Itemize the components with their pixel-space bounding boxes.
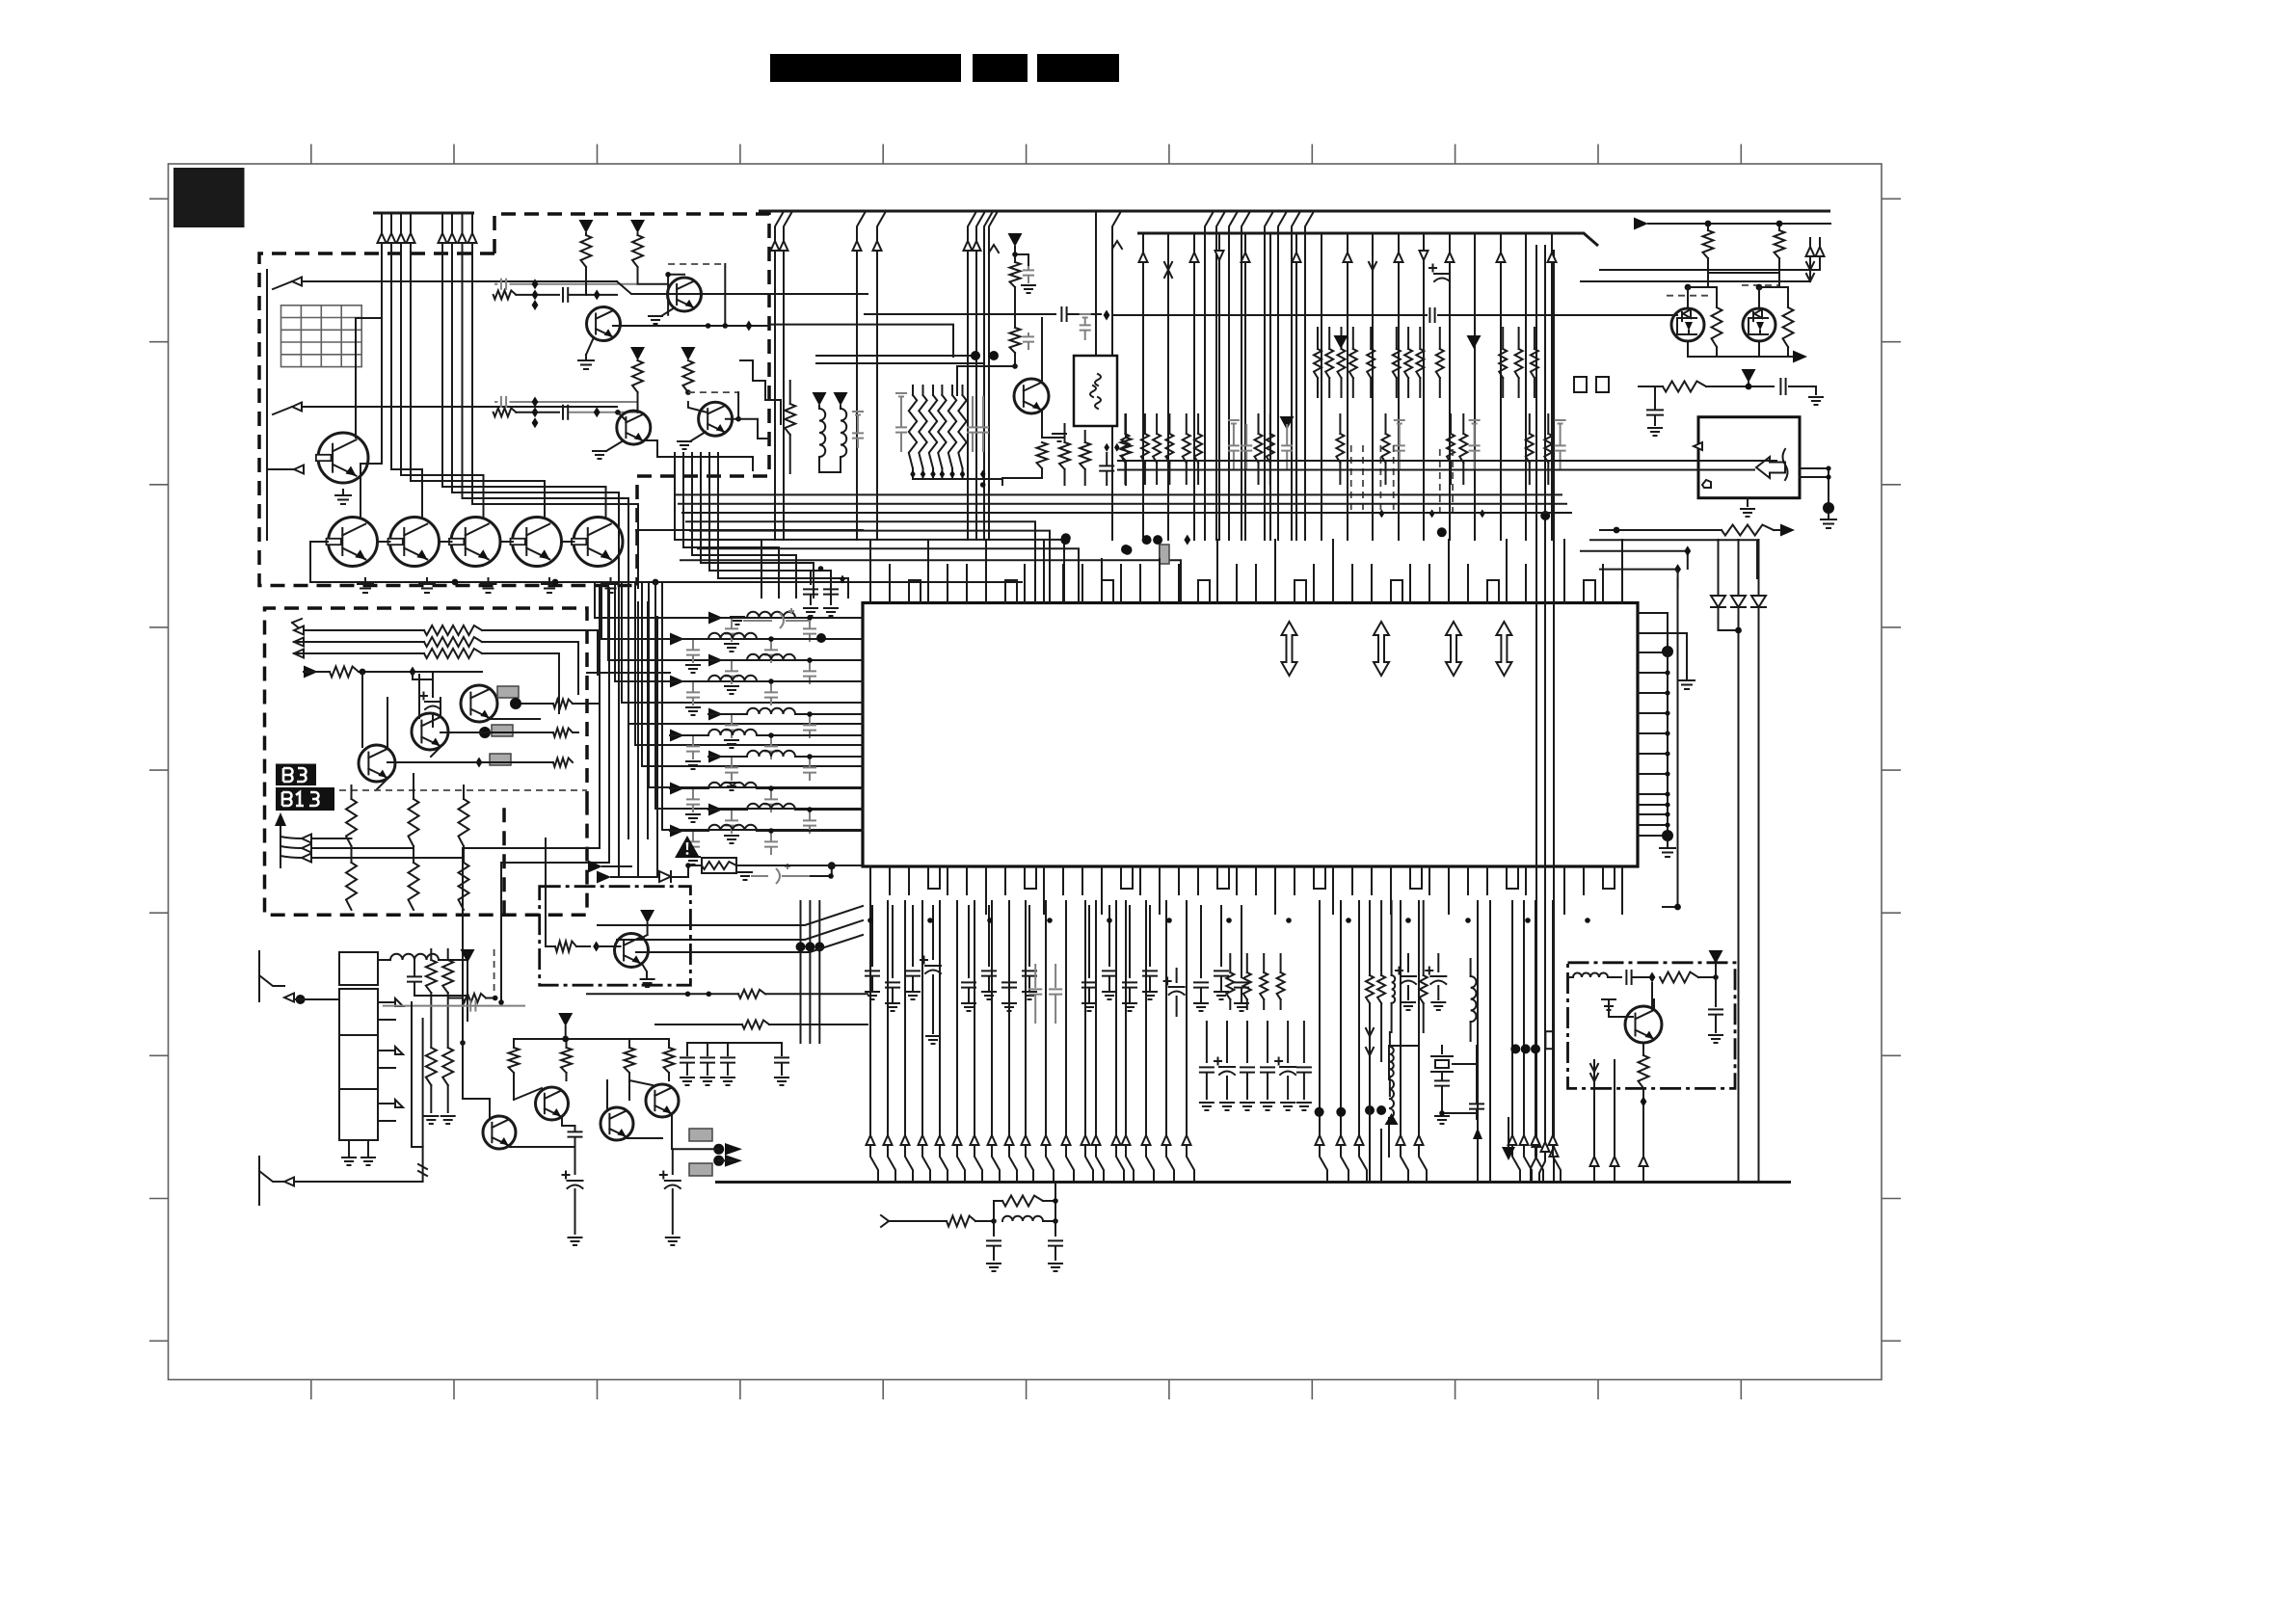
wire run h3 [587, 672, 670, 674]
power triangle bl [461, 949, 475, 963]
capacitor CB11 [707, 1043, 708, 1055]
junction dot f8 [768, 785, 774, 791]
ground Q15 [1042, 437, 1059, 439]
resistor RBL2a [426, 960, 437, 993]
hollow arrow w2 [292, 403, 302, 412]
vertical bus wires from top [382, 214, 472, 243]
wire crystal right [1453, 1046, 1477, 1104]
capacitor CT1 h [1780, 379, 1785, 394]
transistor Q10 [699, 402, 733, 436]
inductor L9 [747, 804, 795, 810]
transistor Q9 [617, 411, 651, 444]
ground CB10 [681, 1078, 694, 1085]
junction dot B8 [615, 410, 621, 415]
junction dot C1 [360, 669, 366, 676]
capacitor CP2 [1023, 336, 1034, 341]
wire filter 5 [723, 713, 863, 715]
junction diamond rail [745, 321, 752, 332]
redacted title block 2 [973, 54, 1028, 82]
grey jumper JC2 [492, 725, 513, 736]
tuner pin triangles [395, 998, 403, 1107]
capacitor CI12 [1200, 906, 1202, 977]
wire H326 ext2 [1438, 314, 1677, 316]
dashed link MOSFET [1667, 285, 1778, 296]
ecap F1 [1434, 274, 1450, 281]
resistor RTR4 [1436, 349, 1444, 378]
ground conn [1821, 514, 1836, 528]
bundle junction dots [1060, 535, 1070, 545]
wire run h1 [794, 865, 863, 866]
grey jumper BM1 [689, 1129, 712, 1141]
filter cap 9 [803, 820, 816, 825]
wire B q8base [638, 275, 685, 315]
transistor Q7 [587, 307, 621, 341]
junction dot Q10c [735, 416, 741, 422]
transistor Q11 [359, 745, 395, 782]
inductor L1 [747, 612, 795, 618]
capacitor CB12 [727, 1043, 729, 1055]
resistor RE1 h [1660, 972, 1698, 983]
dashed shield lines [1351, 445, 1453, 515]
resistor RB1 [581, 235, 592, 267]
ground CM2 [895, 393, 907, 397]
resistor RC6 [553, 729, 573, 737]
capacitor CB13 [781, 1043, 783, 1055]
capacitor CT2 [1647, 410, 1663, 414]
ground CI9 [1103, 992, 1116, 999]
transistor Q33 [646, 1084, 679, 1117]
wire bl [467, 963, 468, 1021]
diamond M1 [1104, 443, 1109, 452]
long wire out1 [742, 293, 868, 295]
IC internal bus arrow 1 [1282, 622, 1297, 676]
resistor RD3 h [742, 1021, 769, 1029]
ground Q40 base [1602, 999, 1615, 1010]
wire CT2 [1654, 386, 1656, 425]
black corner block [174, 168, 245, 227]
arrowheads rv [1533, 1137, 1541, 1147]
ground Q1 [358, 578, 373, 593]
capacitor CB4 [563, 406, 568, 419]
ground BL1 [1402, 1002, 1415, 1010]
wire chain B1 [516, 294, 559, 296]
resistor RC9 [409, 799, 419, 846]
wire Q30 net [463, 1041, 575, 1147]
wire right jog [1600, 570, 1678, 588]
wire Q40 base [1609, 983, 1652, 1017]
ground CI3 [906, 992, 920, 999]
ground IC right pin [1679, 675, 1695, 689]
junction diamond D1 [593, 942, 600, 952]
wire Q14 emitter [642, 964, 647, 977]
power triangle L1 [813, 392, 827, 406]
IC pin ground branch [1638, 633, 1687, 675]
wire chain B2c [569, 412, 638, 413]
bottom bus thick [715, 1181, 1791, 1184]
connector open triangle pin [1694, 442, 1702, 450]
ground CX1 [1435, 1116, 1449, 1124]
wire Q15 collector [1041, 318, 1043, 381]
wire FL1 feed [1095, 211, 1097, 356]
inductor LM1 [819, 409, 825, 457]
out dots BM [713, 1144, 724, 1155]
ground CI4 [962, 1003, 975, 1011]
wire Q11 links [376, 698, 387, 790]
border frame [169, 164, 1882, 1380]
transistor Q31 [536, 1087, 569, 1120]
wire Q3 link [500, 541, 513, 543]
resistor RM6 [1080, 442, 1090, 469]
ground CB13 [775, 1078, 788, 1085]
wire [573, 732, 578, 733]
ground CT11 [824, 608, 838, 616]
ground CI12 [1194, 1003, 1208, 1011]
inductor L2 [708, 633, 757, 639]
wire right h571 [1581, 551, 1688, 569]
wire filter 3 [723, 659, 863, 661]
junction dot Q15 [1013, 364, 1018, 369]
power triangle X [1502, 1147, 1515, 1160]
wire [413, 672, 433, 679]
ground CP1 [1022, 285, 1035, 293]
wire [1789, 386, 1816, 394]
diode DF1 [659, 871, 671, 882]
resistor RB4 [632, 360, 643, 392]
wire B lower gray [494, 401, 638, 403]
resistor RBL1a [442, 960, 453, 993]
transistor Q3 output [451, 518, 500, 567]
electrolytic CBM2 [672, 1149, 674, 1174]
ground CI6 [1002, 1003, 1016, 1011]
dash-dot box D (oscillator) [540, 887, 691, 986]
junction dots base rail [452, 579, 459, 586]
resistor RD1 h [555, 942, 576, 952]
power triangle TR x1335 [1280, 416, 1295, 430]
wire VCO to bus [1642, 1106, 1644, 1182]
gray ecap chain F [751, 864, 811, 884]
junction bigdot conn [1823, 502, 1834, 514]
ground below connector [1747, 498, 1749, 506]
top bus thick [759, 210, 1830, 213]
hollow arrow C3 [294, 650, 304, 658]
fan wires IC bottom-left [598, 906, 863, 952]
diode D1 [1711, 596, 1725, 607]
bus arrowheads bottom [867, 1135, 875, 1145]
bus wires descend [360, 243, 638, 588]
input arrow F2 [597, 871, 611, 884]
wire Q40 collector [1653, 999, 1655, 1009]
capacitor CI7 [1028, 906, 1030, 966]
connector arrow symbol [1756, 457, 1785, 478]
cap CB5 [408, 976, 421, 981]
warning triangle [675, 836, 700, 858]
ground Q6 [335, 490, 351, 504]
junction dots rail [706, 323, 711, 329]
long vertical right 1 [1663, 578, 1678, 907]
bundle diamond [1184, 535, 1190, 545]
wire filter 1 [723, 617, 863, 619]
wire bank rail [913, 478, 1002, 480]
resistor bank TR3 [1393, 349, 1401, 378]
wire D [597, 945, 621, 947]
staircase box B out [738, 360, 781, 470]
IC internal bus arrow 3 [1446, 622, 1461, 676]
fusible resistor RF1 [702, 858, 736, 873]
connector box CN1 [1698, 417, 1800, 498]
wire out BM [673, 1149, 734, 1160]
capacitor CM5 [1080, 325, 1091, 330]
junction dot BM [562, 1036, 569, 1043]
ecap below IC left [1176, 969, 1178, 982]
power triangle TR x1391 [1334, 335, 1348, 349]
inductor L8 [708, 783, 757, 788]
cap CX1 [1441, 1072, 1443, 1079]
wire filter 10 [684, 830, 863, 832]
wire Q2 link [440, 541, 452, 543]
wire X bottom [1442, 1113, 1477, 1119]
wire Q4 link [562, 541, 574, 543]
ground CT2 [1648, 428, 1662, 436]
wire [573, 703, 598, 705]
crystal X1 [1431, 1056, 1453, 1072]
wire input1 [294, 998, 339, 1000]
wire C2 out [482, 642, 578, 694]
grey jumper JC1 [497, 686, 519, 698]
resistor bank stubs [913, 386, 963, 478]
out arrows BM [725, 1143, 742, 1156]
wire right h560 [1590, 540, 1757, 578]
wire C row2 [441, 732, 553, 733]
capacitor CI4 [968, 906, 970, 977]
wire MOSFET sources [1688, 341, 1793, 357]
resistor RC13 [459, 863, 469, 910]
dashed collector Q8 [668, 263, 725, 265]
resistor RM7 [1121, 438, 1132, 461]
wire RBL5 [449, 998, 495, 999]
transistor Q15 [1014, 379, 1049, 413]
wire to Q7 [585, 281, 587, 295]
input terminal 2 [259, 1157, 284, 1205]
ground BL2 [1431, 1002, 1445, 1010]
resistor RM0 [785, 404, 795, 435]
arrowheads right VCO [1590, 1157, 1599, 1166]
double arrows bus2 [1164, 262, 1376, 278]
capacitor CI13 [1220, 906, 1222, 966]
filter input triangle 5 [708, 708, 723, 721]
grey jumper JC3 [490, 754, 511, 765]
wire arrow line 2 [273, 407, 617, 414]
tuner grounds [349, 1140, 368, 1157]
resistor RBM3 [625, 1048, 635, 1073]
inductor L3 [747, 654, 795, 660]
MOSFET Q20 [1671, 308, 1704, 341]
dashed internal C [328, 789, 587, 791]
IC top pin stubs [870, 540, 1622, 603]
wire B upper [494, 283, 638, 285]
power triangle B2 [630, 220, 645, 233]
wire vert right VCO 2 [1614, 1060, 1615, 1182]
hollow arrow C1 [294, 626, 304, 635]
filter box FL1 squiggles [1090, 374, 1101, 409]
resistor RC7 [553, 758, 573, 767]
wire Q15 emitter [1041, 412, 1043, 438]
second bus [1137, 233, 1598, 246]
wire right pair [1581, 270, 1820, 281]
tuner stack box [339, 989, 378, 1140]
filter cap 7 [803, 767, 816, 772]
resistor RT2 [1775, 230, 1785, 258]
inductor L5 [747, 708, 795, 714]
wire H326b [1067, 313, 1101, 315]
capacitor bank below IC [1206, 1022, 1208, 1062]
arrow up B13 [280, 824, 281, 867]
capacitor bank CM2 [895, 427, 907, 432]
capacitor CP1 [1023, 270, 1034, 275]
capacitor CM1 [852, 433, 864, 438]
junction dot f2 [768, 636, 774, 642]
wire arrow line 1 [273, 281, 617, 289]
feeder bundle wires [463, 588, 657, 1099]
junction dot P2 [1012, 363, 1018, 369]
filter input triangle 3 [708, 654, 723, 667]
power triangle BM [558, 1013, 573, 1026]
filter input triangle 4 [670, 676, 684, 688]
junction dot f1 [807, 615, 813, 621]
transistor Q40 [1625, 1006, 1662, 1043]
arrow pot [1780, 524, 1795, 537]
IC riser stubs [870, 559, 1275, 585]
signal table grid [281, 306, 362, 367]
capacitor CI5 [988, 906, 990, 966]
electrolytic cap CC1 [432, 679, 434, 727]
ground Q8 [661, 307, 675, 316]
wire crystal net [1389, 1046, 1442, 1079]
junction diamond B7 [594, 407, 601, 417]
wire [1706, 383, 1774, 386]
wire MOSFET rail [1708, 272, 1779, 274]
power triangle T5 [1742, 369, 1756, 383]
inductor LX1 [1389, 1079, 1394, 1118]
dashed link Q10 [688, 391, 738, 393]
inductor L6 [708, 730, 757, 735]
resistor RD2 h [738, 990, 765, 998]
bus1 drop wires [775, 213, 1313, 540]
diode D2 [1731, 596, 1746, 607]
wire P1 [1015, 247, 1028, 266]
resistor RT3 [1712, 307, 1722, 347]
resistor RP2 [1010, 328, 1021, 353]
junction dot diode [1735, 627, 1742, 634]
arrow long pair [1473, 1128, 1482, 1139]
wire C4 [304, 671, 330, 673]
horizontal bundle mid [675, 494, 1571, 602]
resistor RBM1 [509, 1048, 520, 1073]
input terminal 1 [259, 951, 284, 1001]
wire H326 [865, 313, 1055, 315]
junction dot f5 [807, 711, 813, 717]
resistor RBB2 top [1002, 1196, 1043, 1207]
cap CX2 [1470, 1104, 1483, 1108]
capacitor CI11 [1149, 906, 1151, 966]
hollow arrow w1 [292, 278, 302, 286]
tuner box small [339, 952, 378, 985]
wire under box D 2 [655, 1024, 742, 1025]
ground Q2 [419, 578, 435, 593]
capacitor CM6 [1106, 453, 1108, 465]
right edge arrows [1810, 238, 1820, 270]
transistor Q1 output [329, 518, 378, 567]
ground CM1 small [852, 412, 864, 415]
filter input triangle 1 [708, 612, 723, 625]
capacitor CM4 [977, 427, 989, 432]
wire mosfet drains [1688, 287, 1788, 308]
capacitor CB3 gray [501, 396, 506, 408]
junction dot B q8 [665, 272, 671, 278]
wire CE1 [1632, 976, 1649, 978]
ground CI14 [1235, 1003, 1248, 1011]
transistor Q8 [668, 278, 702, 311]
triangle BL [1385, 1113, 1399, 1125]
wire Q6 collector [356, 318, 382, 438]
junction big dot bottom right pin [1662, 830, 1673, 841]
input dot [296, 995, 306, 1004]
power triangle L2 [834, 392, 848, 406]
junction diamond H1 [1104, 310, 1110, 321]
ecap BL2 [1437, 954, 1439, 971]
wire BM rail [514, 1026, 669, 1048]
input arrow right top [1634, 218, 1648, 230]
transistor Q4 output [513, 518, 562, 567]
hollow arrow input [294, 466, 304, 474]
junction dot f9 [807, 807, 813, 812]
ground CI11 [1143, 992, 1157, 999]
wire filter 8 [684, 787, 863, 789]
ground CT10 [804, 608, 817, 616]
input arrow F1 [588, 861, 602, 873]
coil LB1 [390, 954, 439, 960]
capacitor CI6 [1008, 906, 1010, 977]
wire RBB1 [975, 1220, 994, 1222]
resistor RC12 [409, 863, 419, 910]
bus2 arrowheads [1139, 253, 1148, 262]
ground CI8 [1082, 1003, 1096, 1011]
B13 label box [276, 787, 334, 811]
ground CI10 [1123, 1003, 1136, 1011]
capacitor CB2 [563, 288, 568, 302]
junction diamond C3 [476, 758, 483, 768]
junction dots D row [685, 992, 691, 998]
dashed box B (amp sub) [494, 214, 769, 586]
ground CBB1 [987, 1264, 1001, 1271]
resistor RT1 [1703, 230, 1714, 258]
bank connection stubs [1318, 328, 1535, 397]
diamond row TR [1379, 509, 1385, 518]
wire LB1 [378, 960, 467, 989]
resistor RQ15 [1037, 442, 1048, 468]
wire Q1 link [378, 541, 390, 543]
ground CB12 [721, 1078, 734, 1085]
fan arrowheads [302, 835, 311, 843]
filter cap 1 [803, 628, 816, 633]
ground CT1 [1809, 397, 1823, 405]
resistor RM5 [1059, 442, 1070, 469]
wire diode feeds [1719, 540, 1759, 596]
junction diamond r2 [1674, 564, 1681, 574]
big dots D verticals [796, 942, 806, 951]
pad rect 2 [1596, 377, 1609, 392]
power triangle E [1709, 950, 1723, 964]
fan arrows B13 [280, 837, 302, 858]
